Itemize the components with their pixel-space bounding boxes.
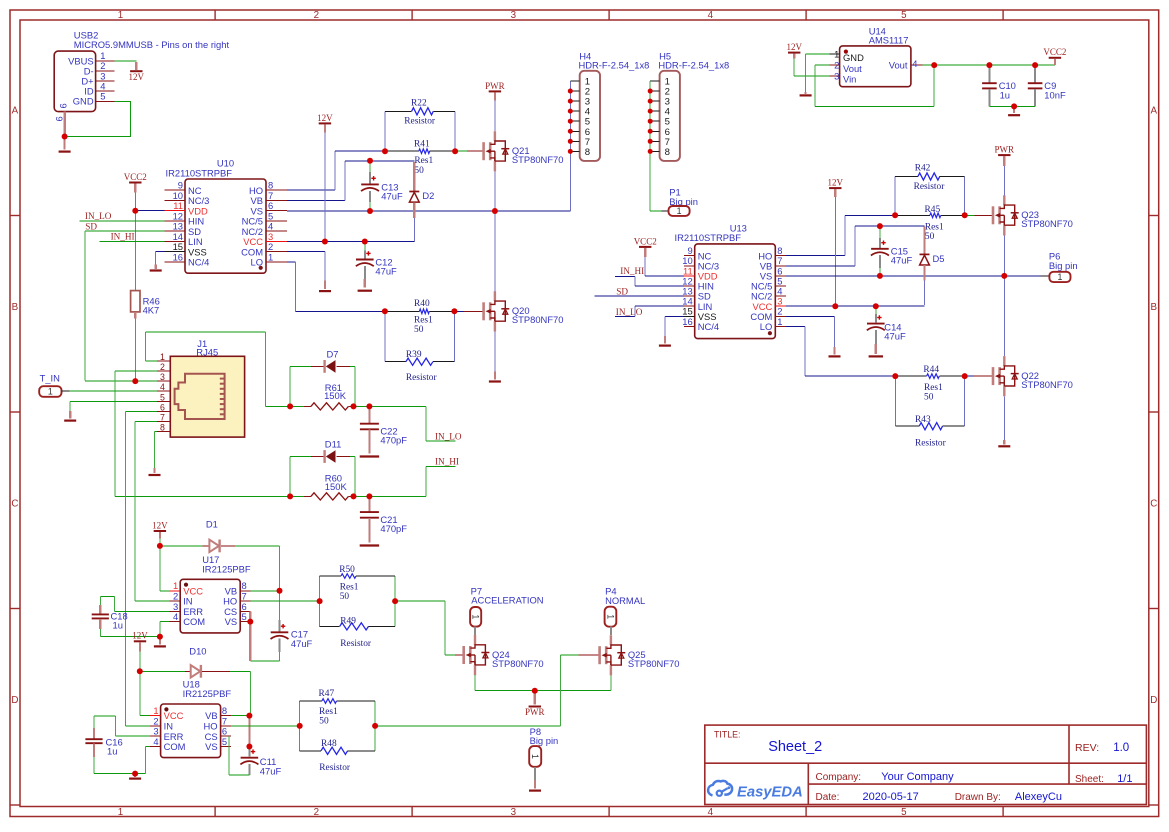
USB2 pin 5 GND <box>73 91 115 107</box>
svg-text:4: 4 <box>173 611 178 622</box>
U10 pin 5 NC/5 <box>242 210 287 226</box>
U13 pin 5 NC/5 <box>751 275 786 291</box>
T_IN lead <box>62 390 70 392</box>
svg-text:A: A <box>12 105 19 116</box>
svg-text:R42: R42 <box>915 164 931 174</box>
svg-text:A: A <box>1151 105 1158 116</box>
ground at U14 GND <box>800 94 812 96</box>
resistor R46 4K7 (box style) <box>131 291 160 316</box>
junction R46/SD row <box>132 378 138 384</box>
U17 pin 4 COM <box>170 611 206 627</box>
Q23 gate lead <box>975 214 994 216</box>
U18 pin 3 ERR <box>150 726 184 742</box>
U18 pin 6 CS <box>205 726 232 742</box>
junction R41/R22 left <box>382 148 388 154</box>
junction COM/C18/ground <box>157 634 163 640</box>
svg-text:1: 1 <box>834 49 839 60</box>
svg-text:D1: D1 <box>206 518 218 529</box>
svg-text:VCC2: VCC2 <box>124 172 147 182</box>
diode D10 <box>191 665 201 678</box>
svg-text:R39: R39 <box>406 350 422 360</box>
svg-text:D2: D2 <box>422 190 434 201</box>
svg-text:1: 1 <box>1057 272 1062 282</box>
wire Q24 source to PWR node <box>475 675 535 691</box>
wire to Q23 gate <box>965 214 975 216</box>
wire R50 loop to Q24 gate <box>395 601 464 655</box>
svg-text:STP80NF70: STP80NF70 <box>512 154 564 165</box>
svg-text:12V: 12V <box>132 631 148 641</box>
ground at U13 VSS <box>659 345 671 347</box>
diode D5 <box>920 226 945 305</box>
wire 12V to VCC row <box>324 132 326 240</box>
svg-text:1: 1 <box>118 10 123 21</box>
power flag VCC2 at U13 <box>634 236 657 247</box>
Q21 gate lead <box>467 150 483 152</box>
junction D11/R60 left <box>287 493 293 499</box>
svg-text:4: 4 <box>708 10 714 21</box>
svg-text:4: 4 <box>153 736 158 747</box>
H5 pin 5 <box>650 117 670 128</box>
junction U17 VS/CS <box>247 619 253 625</box>
svg-text:2: 2 <box>314 807 319 818</box>
svg-text:1: 1 <box>160 352 165 362</box>
wire VCC row U10 <box>287 240 414 242</box>
resistor R47 Res1 50 loop top <box>300 689 375 727</box>
power flag PWR at Q23 <box>995 145 1015 156</box>
diode D7 <box>325 360 336 373</box>
junction PWR sources <box>532 688 538 694</box>
svg-text:4: 4 <box>160 382 165 392</box>
wire U18 HO to R47 loop <box>231 725 300 727</box>
big pin P4 body <box>605 607 617 627</box>
U13 pin 7 VB <box>760 255 786 271</box>
wire H4 bus vertical <box>569 81 571 211</box>
J1 pin 3 <box>157 372 171 382</box>
wire Q22 source to ground <box>1003 396 1005 444</box>
wire J1 pin1 to D7/R61 <box>146 332 291 406</box>
ground at U13 COM <box>829 355 841 357</box>
resistor R40 Res1 50 <box>385 299 455 335</box>
U18 pin 4 COM <box>150 736 186 752</box>
svg-text:STP80NF70: STP80NF70 <box>512 314 564 325</box>
U10 pin 7 VB <box>250 190 286 206</box>
wire PWR node to Q25 source <box>535 675 611 690</box>
svg-text:R22: R22 <box>411 99 427 109</box>
H4 pin 1 <box>570 77 590 88</box>
svg-text:47uF: 47uF <box>884 331 906 342</box>
svg-text:B: B <box>1151 302 1158 313</box>
svg-text:Resistor: Resistor <box>406 373 438 383</box>
junction R45 left <box>892 212 898 218</box>
big pin P8 body <box>529 746 541 767</box>
ground at U17 COM <box>159 637 161 644</box>
svg-text:Your Company: Your Company <box>881 771 954 783</box>
wire U17 ERR to C18 <box>100 597 169 614</box>
U13 pin 3 VCC <box>753 296 786 312</box>
svg-text:HDR-F-2.54_1x8: HDR-F-2.54_1x8 <box>658 60 729 71</box>
ground at C12 <box>358 290 372 292</box>
U18 pin 5 VS <box>205 736 231 752</box>
wire VCC row U13 <box>786 305 925 307</box>
U18 pin 8 VB <box>205 705 231 721</box>
J1 pin 8 <box>157 423 171 433</box>
svg-text:Vout: Vout <box>843 63 862 74</box>
U10 pin 12 HIN <box>165 210 205 226</box>
wire VS row U13 to P6 <box>786 275 1041 277</box>
junction R44 right / Q22 gate <box>962 373 968 379</box>
U10 pin 6 VS <box>250 200 286 216</box>
resistor R42 loop <box>895 164 965 216</box>
U13 pin 12 HIN <box>682 275 714 291</box>
svg-text:COM: COM <box>183 616 205 627</box>
big pin P7 body <box>470 607 481 627</box>
net port T_IN <box>40 372 60 383</box>
svg-text:50: 50 <box>340 592 350 602</box>
wire R61 to IN_LO <box>354 405 426 407</box>
H4 pin 6 <box>570 127 590 138</box>
svg-text:GND: GND <box>73 96 94 107</box>
junction R47 right <box>372 723 378 729</box>
U17 pin 1 VCC <box>170 580 204 596</box>
junction C13 top <box>367 158 373 164</box>
capacitor C9 10nF <box>1028 65 1066 106</box>
wire USB GND loop <box>66 101 131 136</box>
wire VB row U13 <box>786 226 925 266</box>
diode D7 loop <box>290 366 325 406</box>
svg-text:NORMAL: NORMAL <box>605 595 645 606</box>
J1 pin 5 <box>157 392 171 402</box>
svg-text:1: 1 <box>530 754 540 759</box>
svg-text:3: 3 <box>834 71 839 82</box>
junction Q23 source / VS / P6 <box>1001 273 1007 279</box>
U10 VSS to ground <box>150 252 165 271</box>
svg-text:2: 2 <box>834 60 839 71</box>
svg-text:GND: GND <box>843 52 864 63</box>
USB2 pin 3 D+ <box>81 70 114 86</box>
junction R47 left <box>297 723 303 729</box>
gate driver U13 IR2110STRPBF body <box>675 223 776 339</box>
svg-text:ACCELERATION: ACCELERATION <box>471 595 543 606</box>
svg-text:COM: COM <box>164 741 186 752</box>
svg-text:1: 1 <box>677 206 682 216</box>
H4 pin 7 <box>570 137 590 148</box>
svg-text:T_IN: T_IN <box>40 372 60 383</box>
svg-text:VS: VS <box>205 741 218 752</box>
ground at U18 COM <box>134 774 136 777</box>
junction R41 right / Q21 gate <box>452 148 458 154</box>
junction 12V/VCC row <box>322 238 328 244</box>
svg-text:12V: 12V <box>152 520 168 530</box>
wire to Q22 gate <box>965 375 974 377</box>
wire LO row U13 to R44 <box>786 326 895 376</box>
junction D7/R61 left <box>287 403 293 409</box>
ground at C14 <box>869 355 883 357</box>
svg-text:R44: R44 <box>923 365 939 375</box>
J1 pin 7 <box>157 413 171 423</box>
capacitor C17 47uF <box>271 591 313 661</box>
wire VB row U10 <box>287 199 345 201</box>
junction C15 bottom / VS row <box>877 273 883 279</box>
U10 pin 9 NC <box>165 180 202 196</box>
junction R45 right / Q23 gate <box>962 212 968 218</box>
H5 pin 7 <box>650 137 670 148</box>
svg-text:50: 50 <box>414 166 424 176</box>
wire R60 to IN_HI <box>354 495 426 497</box>
connector H5 HDR-F-2.54_1x8 <box>658 50 729 161</box>
wire Q20 source to ground <box>494 332 496 380</box>
capacitor C21 470pF <box>360 497 407 543</box>
svg-text:4: 4 <box>912 58 917 69</box>
net label IN_HI at U13 <box>615 266 684 286</box>
P1 lead <box>662 210 669 212</box>
svg-text:47uF: 47uF <box>260 766 282 777</box>
U10 pin 11 VDD <box>165 200 208 216</box>
svg-text:12V: 12V <box>129 72 145 82</box>
svg-text:3: 3 <box>511 807 517 818</box>
junction USB GND <box>62 134 68 140</box>
svg-text:IN_HI: IN_HI <box>435 456 459 466</box>
junction C12 top <box>362 238 368 244</box>
resistor R61 150K <box>290 382 353 410</box>
H5 pin 4 <box>650 107 670 118</box>
junction R44 left <box>892 373 898 379</box>
wire C10/C9 bottom <box>989 105 1035 107</box>
svg-text:MICRO5.9MMUSB - Pins on the ri: MICRO5.9MMUSB - Pins on the right <box>74 39 230 50</box>
svg-text:5: 5 <box>901 10 907 21</box>
junction C13 bottom/VS <box>367 208 373 214</box>
svg-text:Res1: Res1 <box>414 156 433 166</box>
svg-text:10nF: 10nF <box>1044 89 1066 100</box>
Q20 gate lead <box>463 310 483 312</box>
svg-text:B: B <box>12 302 19 313</box>
junction C15 top <box>877 223 883 229</box>
svg-text:6: 6 <box>160 402 165 412</box>
U13 pin 13 SD <box>682 286 711 302</box>
svg-text:EasyEDA: EasyEDA <box>737 784 803 800</box>
svg-text:Vin: Vin <box>843 74 856 85</box>
svg-text:SD: SD <box>85 222 97 232</box>
svg-text:50: 50 <box>414 325 424 335</box>
wire J1 pin7 down to U17 IN <box>135 422 170 602</box>
wire VDD row U10 <box>135 210 164 212</box>
H4 pin 5 <box>570 117 590 128</box>
svg-text:Res1: Res1 <box>924 383 943 393</box>
USB2 pin 2 D- <box>84 60 115 76</box>
J1 pin 6 <box>157 402 171 412</box>
U14 pin 1 GND <box>829 49 864 63</box>
svg-text:C: C <box>11 498 18 509</box>
H5 pin 6 <box>650 127 670 138</box>
U13 pin 11 VDD <box>683 265 718 281</box>
svg-text:5: 5 <box>242 611 247 622</box>
svg-text:1: 1 <box>48 387 53 397</box>
wire Q23 source to Q22 drain <box>1003 236 1005 357</box>
ground at USB2 <box>63 138 65 150</box>
wire C18 bottom to COM node <box>100 636 160 638</box>
U13 pin 15 VSS <box>682 306 716 322</box>
wire HO row U13 <box>786 215 895 255</box>
net label IN_HI at U10 <box>100 231 165 241</box>
svg-text:16: 16 <box>173 251 183 262</box>
wire U14 GND to ground <box>806 54 830 94</box>
U14 pin 2 Vout <box>829 60 862 74</box>
svg-text:D11: D11 <box>325 438 342 449</box>
svg-text:NC/4: NC/4 <box>698 321 719 332</box>
wire R41 row left <box>335 150 385 152</box>
svg-text:R45: R45 <box>925 205 941 215</box>
svg-text:VCC2: VCC2 <box>1043 47 1066 57</box>
svg-text:STP80NF70: STP80NF70 <box>492 658 544 669</box>
gate driver U10 IR2110STRPBF body <box>166 158 267 274</box>
wire T_IN to J1 pin4 <box>70 390 157 392</box>
svg-text:IR2125PBF: IR2125PBF <box>202 563 251 574</box>
junction R40 left <box>382 308 388 314</box>
wire COM U13 to ground <box>786 316 835 354</box>
power flag 12V at U17 COM area <box>132 631 148 642</box>
U13 pin 14 LIN <box>682 296 712 312</box>
H4 pin 8 <box>570 147 590 158</box>
ground at C22 <box>360 455 379 457</box>
P6 lead <box>1041 275 1050 277</box>
svg-text:STP80NF70: STP80NF70 <box>1021 379 1073 390</box>
wire J1 pin5 to ground <box>70 401 157 418</box>
H4 pin 3 <box>570 97 590 108</box>
svg-text:Resistor: Resistor <box>319 763 351 773</box>
svg-text:VCC2: VCC2 <box>634 236 657 246</box>
svg-text:Date:: Date: <box>816 792 840 803</box>
P8 lead to ground <box>534 767 536 789</box>
svg-text:1/1: 1/1 <box>1117 773 1132 785</box>
svg-text:47uF: 47uF <box>375 266 397 277</box>
ground at Q22 source <box>998 445 1010 447</box>
wire H5 bus vertical to P1 <box>650 81 662 211</box>
svg-text:R41: R41 <box>414 139 430 149</box>
svg-text:Resistor: Resistor <box>915 438 947 448</box>
svg-text:5: 5 <box>160 392 165 402</box>
power flag VCC2 at U14 <box>1043 47 1066 58</box>
svg-text:Res1: Res1 <box>925 222 944 232</box>
svg-text:Sheet:: Sheet: <box>1075 774 1104 785</box>
svg-text:R48: R48 <box>321 739 337 749</box>
U17 pin 2 IN <box>170 591 193 607</box>
junction 12V / U13 VCC <box>832 303 838 309</box>
wire J1 pin2 to D11/R60 <box>115 371 290 496</box>
wire 12V to U13 VCC row <box>834 197 836 305</box>
net port T_IN body <box>39 386 61 397</box>
ground at C10/C9 <box>1008 114 1020 116</box>
power flag 12V at U13 <box>828 178 844 189</box>
capacitor C10 1u <box>982 65 1016 106</box>
wire PWR to Q23 drain <box>1003 166 1005 195</box>
svg-text:4: 4 <box>708 807 714 818</box>
H5 pin 3 <box>650 97 670 108</box>
wire C11 bottom to CS <box>229 736 250 775</box>
svg-text:D10: D10 <box>189 646 206 657</box>
svg-text:2: 2 <box>160 362 165 372</box>
svg-text:Resistor: Resistor <box>914 182 946 192</box>
transistor Q20 STP80NF70 <box>484 291 564 331</box>
svg-text:7: 7 <box>160 413 165 423</box>
svg-text:2020-05-17: 2020-05-17 <box>863 791 919 803</box>
svg-text:R49: R49 <box>340 616 356 626</box>
connector USB2 MICRO5.9MMUSB <box>54 30 229 112</box>
svg-text:IN_LO: IN_LO <box>616 307 643 317</box>
svg-text:16: 16 <box>682 316 692 327</box>
svg-text:150K: 150K <box>325 481 348 492</box>
capacitor C22 470pF <box>360 407 407 454</box>
svg-text:D5: D5 <box>933 253 945 264</box>
U10 pin 2 COM <box>241 241 287 257</box>
U10 pin 13 SD <box>165 221 202 237</box>
U10 pin 3 VCC <box>243 231 287 247</box>
junction R60 right <box>351 493 357 499</box>
svg-text:Res1: Res1 <box>340 582 359 592</box>
svg-text:5: 5 <box>901 807 907 818</box>
U10 pin 8 HO <box>249 180 287 196</box>
junction C16/COM/ground <box>132 771 138 777</box>
junction C14 top <box>873 303 879 309</box>
svg-text:470pF: 470pF <box>380 435 407 446</box>
diode D11 <box>325 450 336 463</box>
svg-text:AMS1117: AMS1117 <box>869 35 909 46</box>
wire VBUS to 12V <box>115 60 137 62</box>
diode D10 row <box>140 670 191 672</box>
big pin P8 <box>530 726 559 746</box>
svg-text:12V: 12V <box>317 113 333 123</box>
U18 pin 7 HO <box>204 715 232 731</box>
power flag 12V at U14 <box>786 42 802 53</box>
junction R50 left <box>317 598 323 604</box>
svg-text:STP80NF70: STP80NF70 <box>1021 218 1073 229</box>
U18 pin 2 IN <box>150 715 173 731</box>
svg-text:IN_HI: IN_HI <box>111 231 135 241</box>
svg-text:47uF: 47uF <box>381 191 403 202</box>
wire COM U10 to ground <box>287 252 325 289</box>
diode D2 <box>409 162 434 241</box>
wire J1 pin8 to ground <box>155 432 157 473</box>
svg-text:1u: 1u <box>107 746 117 757</box>
svg-text:Resistor: Resistor <box>404 117 436 127</box>
big pin P1 body <box>669 206 690 216</box>
capacitor C14 47uF <box>867 306 906 354</box>
net label IN_LO at U10 <box>80 211 165 221</box>
H4 pin 4 <box>570 107 590 118</box>
big pin P4 NORMAL <box>605 585 645 606</box>
svg-text:Res1: Res1 <box>414 315 433 325</box>
regulator U14 AMS1117 body <box>840 25 911 86</box>
svg-text:50: 50 <box>925 232 935 242</box>
svg-text:TITLE:: TITLE: <box>714 730 740 740</box>
wire U17 VB / C17 top <box>251 590 280 592</box>
U14 pin 3 Vin <box>829 71 856 85</box>
svg-text:8: 8 <box>665 147 670 158</box>
U13 pin 4 NC/2 <box>751 286 786 302</box>
svg-text:IR2110STRPBF: IR2110STRPBF <box>675 232 742 243</box>
U13 pin 8 HO <box>758 245 786 261</box>
U17 pin 7 HO <box>223 591 251 607</box>
power flag VCC2 at U10 <box>124 172 147 183</box>
power flag PWR at Q24/Q25 <box>534 691 536 705</box>
svg-text:Company:: Company: <box>816 772 862 783</box>
P7 lead <box>474 627 476 636</box>
svg-text:470pF: 470pF <box>380 523 407 534</box>
driver U17 IR2125PBF body <box>180 554 251 633</box>
U17 pin 8 VB <box>225 580 251 596</box>
svg-text:1u: 1u <box>113 620 123 631</box>
wire U18 VCC <box>140 671 150 715</box>
svg-text:8: 8 <box>160 423 165 433</box>
U10 pin 10 NC/3 <box>165 190 210 206</box>
